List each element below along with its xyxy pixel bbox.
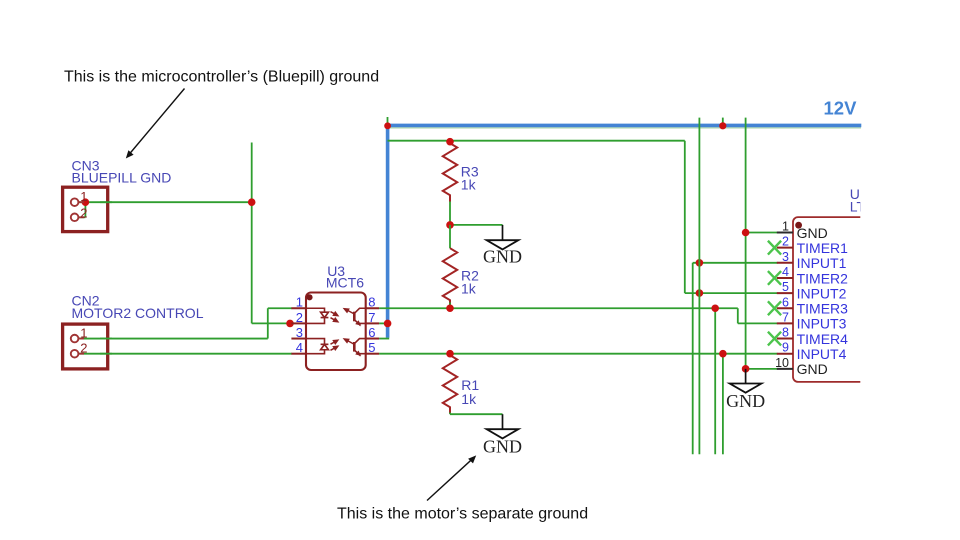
- wire: vertical x=715.2 down: [714, 308, 716, 454]
- U3 phototransistor (bottom): [344, 339, 366, 356]
- wire: U3 pin5 to U1 INPUT4 (long): [379, 353, 777, 355]
- svg-text:MOTOR2 CONTROL: MOTOR2 CONTROL: [72, 305, 204, 321]
- svg-text:4: 4: [296, 340, 303, 355]
- junction on INPUT2 wire: [696, 289, 704, 297]
- wire: into U3 pin1: [268, 307, 292, 309]
- no-connect X on pin 6: [768, 301, 781, 315]
- resistor R1: [443, 355, 457, 413]
- wire: vertical down at x=684.8: [684, 141, 686, 293]
- ground symbol (U1 GND): [730, 384, 762, 393]
- wire: into U1 pin7: [738, 322, 778, 324]
- wire: horizontal into U3 pin2: [252, 322, 292, 324]
- junction on INPUT1 wire: [696, 259, 704, 267]
- CN2 pin 2 circle: [75, 353, 84, 355]
- ground symbol (motor ground): [487, 429, 519, 438]
- svg-text:9: 9: [782, 341, 789, 355]
- wire: U3 pin7 to 12V bus: [379, 322, 388, 324]
- svg-text:1k: 1k: [461, 391, 477, 407]
- junction before U3 pin2: [286, 320, 294, 328]
- resistor R3: [443, 143, 457, 201]
- svg-text:GND: GND: [483, 437, 522, 457]
- junction U3 pin7 on 12V: [384, 320, 392, 328]
- wire: into U1 pin10 GND: [746, 368, 778, 370]
- wire: corner up to U3 pin1 row: [267, 308, 269, 338]
- svg-text:TIMER2: TIMER2: [797, 270, 849, 286]
- U1 pin-1 marker dot: [795, 222, 802, 229]
- no-connect X on pin 4: [768, 271, 781, 285]
- wire: green stub above 12V corner: [387, 117, 389, 141]
- junction R2 bottom: [446, 304, 454, 312]
- svg-text:GND: GND: [483, 247, 522, 267]
- U1 pin 4 stub: [777, 277, 793, 279]
- U3 pin 3 stub: [291, 338, 306, 340]
- svg-text:1: 1: [80, 326, 87, 341]
- svg-text:1k: 1k: [461, 176, 477, 192]
- U3 pin 4 stub: [291, 353, 306, 355]
- svg-text:2: 2: [80, 341, 87, 356]
- svg-text:5: 5: [368, 340, 375, 355]
- U3 light arrows (top): [331, 312, 338, 322]
- 12V bus vertical wire: [386, 124, 390, 338]
- wire: branch down to U3 pin3: [289, 322, 291, 324]
- wire: vertical from CN3 net down to U3 pin2 row: [251, 143, 253, 324]
- junction R3 bottom: [446, 221, 454, 229]
- junction on CN3 net: [248, 198, 256, 206]
- wire overlay across CN2 box edge (pin1): [100, 338, 112, 340]
- U1 pin 6 stub: [777, 307, 793, 309]
- svg-text:INPUT2: INPUT2: [797, 285, 847, 301]
- U1 pin 10 stub: [777, 368, 793, 370]
- svg-text:3: 3: [782, 250, 789, 264]
- wire: CN3 pin2 stub: [78, 216, 85, 218]
- svg-text:This is the microcontroller’s: This is the microcontroller’s (Bluepill)…: [64, 69, 379, 86]
- IC U1 body (motor driver, clipped at image edge): [793, 217, 903, 382]
- svg-text:8: 8: [368, 295, 375, 310]
- wire: stub above 12V at x=722.8: [722, 118, 724, 126]
- wire: U3 pin8 long horizontal: [379, 307, 738, 309]
- svg-text:5: 5: [782, 280, 789, 294]
- U1 pin 5 stub: [777, 292, 793, 294]
- CN3 pin 1 circle: [75, 201, 84, 203]
- U1 pin 7 stub: [777, 322, 793, 324]
- U3 pin 2 stub: [291, 322, 306, 324]
- wire: U3 pin6 to 12V bus bottom: [379, 338, 389, 340]
- U1 pin 1 stub: [777, 232, 793, 234]
- wire: CN3 pin1 to junction: [78, 201, 252, 203]
- wire: R3 bottom green: [449, 202, 451, 225]
- svg-text:6: 6: [368, 325, 375, 340]
- wire: INPUT1 horizontal into U1 pin3: [693, 262, 778, 264]
- svg-text:INPUT1: INPUT1: [797, 255, 847, 271]
- svg-text:3: 3: [296, 325, 303, 340]
- svg-text:6: 6: [782, 295, 789, 309]
- svg-text:2: 2: [80, 206, 87, 221]
- arrow to CN3: [126, 89, 185, 159]
- U3 pin-1 marker dot: [306, 294, 312, 300]
- svg-text:1: 1: [782, 220, 789, 234]
- resistor R2: [443, 248, 457, 306]
- no-connect X on pin 8: [768, 332, 781, 346]
- junction R3 top: [446, 138, 454, 146]
- optocoupler U3 body (MCT6): [306, 293, 366, 371]
- wire: corner down to U1 INPUT3: [737, 308, 739, 323]
- svg-text:4: 4: [782, 265, 789, 279]
- svg-text:2: 2: [782, 235, 789, 249]
- junction at CN3 pin1: [82, 198, 90, 206]
- svg-text:GND: GND: [726, 391, 765, 411]
- U3 pin 8 stub: [366, 307, 379, 309]
- svg-text:1k: 1k: [461, 280, 477, 296]
- connector CN2: [63, 324, 108, 369]
- connector CN3: [63, 187, 108, 231]
- svg-text:12V: 12V: [824, 98, 858, 119]
- wire overlay across CN3 box edge: [100, 201, 112, 203]
- wire: CN2 pin1 to corner: [78, 338, 268, 340]
- wire: R1 bottom corner: [449, 413, 451, 415]
- CN2 pin 1 circle: [75, 338, 84, 340]
- gnd pin line: [502, 225, 504, 240]
- svg-text:10: 10: [775, 356, 789, 370]
- wire: CN3 pin1-pin2 jumper vertical: [84, 202, 86, 217]
- svg-text:This is the motor’s separate g: This is the motor’s separate ground: [337, 506, 588, 523]
- svg-text:7: 7: [368, 310, 375, 325]
- U1 pin 3 stub: [777, 262, 793, 264]
- svg-text:TIMER3: TIMER3: [797, 301, 849, 317]
- gnd pin line: [502, 414, 504, 429]
- U3 internal LED (top): [306, 308, 328, 323]
- svg-text:8: 8: [782, 326, 789, 340]
- svg-text:TIMER4: TIMER4: [797, 331, 849, 347]
- wire overlay across CN2 box edge (pin2): [100, 353, 112, 355]
- U1 pin 9 stub: [777, 353, 793, 355]
- wire: R2 top green: [449, 225, 451, 248]
- junction at 12V corner: [384, 122, 391, 129]
- wire: vertical x=745.6 GND net: [745, 118, 747, 369]
- svg-text:1: 1: [80, 189, 87, 204]
- wire: vertical x=722.9 down: [722, 354, 724, 455]
- wire: to GND symbol: [450, 224, 503, 226]
- svg-text:GND: GND: [797, 361, 828, 377]
- svg-text:TIMER1: TIMER1: [797, 240, 849, 256]
- svg-text:MCT6: MCT6: [326, 275, 364, 291]
- svg-text:GND: GND: [797, 225, 828, 241]
- U3 phototransistor (top): [344, 308, 366, 325]
- U3 pin 1 stub: [291, 307, 306, 309]
- junction pin10 row: [742, 365, 750, 373]
- junction x=722.9 on INPUT4 net: [719, 350, 727, 358]
- wire: into U1 pin1 GND: [746, 232, 777, 234]
- CN3 pin 2 circle: [75, 216, 84, 218]
- wire: vertical x=699.4 (crosses 12V): [698, 118, 700, 455]
- gnd pin line at U1 pin10: [745, 369, 747, 384]
- wire: CN2 pin2 to U3 pin4: [78, 353, 292, 355]
- U1 pin 2 stub: [777, 247, 793, 249]
- svg-text:INPUT4: INPUT4: [797, 346, 847, 362]
- 12V bus horizontal wire: [386, 124, 861, 128]
- svg-text:1: 1: [296, 295, 303, 310]
- U3 pin 6 stub: [366, 338, 379, 340]
- junction pin1 row: [742, 229, 750, 237]
- arrow to R1 GND: [427, 455, 476, 500]
- wire: top green horizontal from 12V corner: [388, 140, 685, 142]
- junction x=715.2 on U3pin8 net: [711, 304, 719, 312]
- junction R1 top: [446, 350, 454, 358]
- junction on 12V bus: [719, 122, 726, 129]
- U3 light arrows (bottom): [331, 340, 338, 350]
- ground symbol (R3/R2 node): [487, 240, 519, 249]
- svg-text:2: 2: [296, 310, 303, 325]
- wire: pale green under 12V bus: [388, 127, 861, 129]
- wire: R2 bottom green: [449, 303, 451, 309]
- svg-text:7: 7: [782, 310, 789, 324]
- wire: vertical x=692.7 down: [692, 263, 694, 455]
- U3 pin 5 stub: [366, 353, 379, 355]
- U1 pin 8 stub: [777, 338, 793, 340]
- no-connect X on pin 2: [768, 241, 781, 255]
- U3 internal LED (bottom): [306, 339, 328, 354]
- wire: into U1 INPUT2 (pin5): [685, 292, 778, 294]
- svg-text:BLUEPILL GND: BLUEPILL GND: [72, 169, 172, 185]
- U3 pin 7 stub: [366, 322, 379, 324]
- svg-text:INPUT3: INPUT3: [797, 316, 847, 332]
